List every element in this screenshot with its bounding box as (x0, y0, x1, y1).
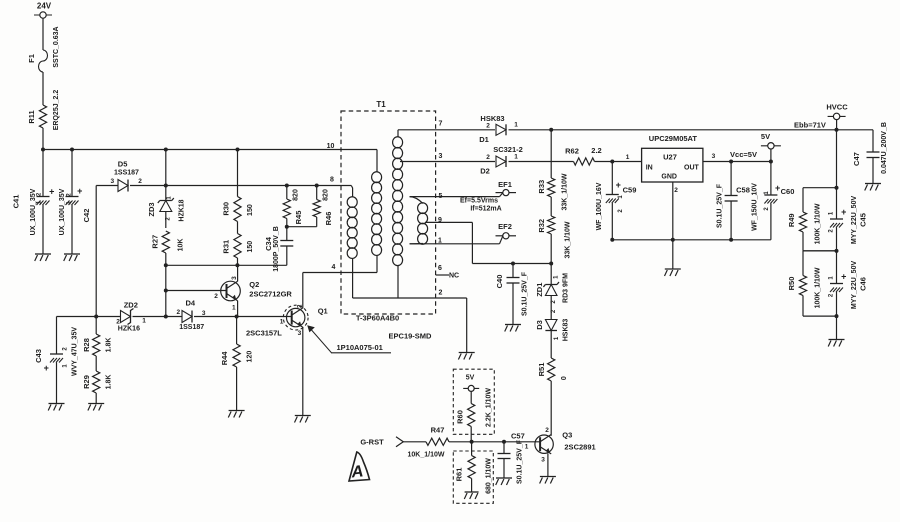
svg-text:C60: C60 (781, 187, 795, 196)
svg-text:Ebb=71V: Ebb=71V (794, 121, 826, 130)
svg-text:C42: C42 (82, 209, 91, 223)
svg-text:UX_100U_35V: UX_100U_35V (59, 188, 66, 235)
svg-text:C40: C40 (495, 275, 504, 289)
svg-text:S0.1U_25V_F: S0.1U_25V_F (717, 183, 724, 228)
svg-text:1: 1 (232, 305, 236, 312)
svg-text:D4: D4 (186, 299, 196, 308)
svg-text:2: 2 (545, 427, 549, 434)
svg-text:OUT: OUT (684, 164, 700, 171)
svg-text:HSK83: HSK83 (562, 319, 569, 342)
svg-text:ZD3: ZD3 (147, 202, 156, 216)
svg-text:5V: 5V (466, 375, 475, 382)
svg-text:1: 1 (525, 444, 529, 451)
svg-text:T1: T1 (376, 100, 386, 109)
svg-text:C34: C34 (264, 236, 273, 251)
svg-text:120: 120 (246, 351, 253, 363)
svg-text:Vcc=5V: Vcc=5V (730, 150, 757, 159)
svg-text:WF_150U_10V: WF_150U_10V (751, 183, 758, 231)
svg-text:2.2K_1/10W: 2.2K_1/10W (485, 388, 492, 427)
svg-text:NC: NC (449, 273, 459, 280)
svg-text:+: + (49, 187, 54, 197)
svg-text:1SS187: 1SS187 (114, 170, 139, 177)
svg-text:C43: C43 (34, 349, 43, 363)
svg-text:Q2: Q2 (249, 280, 259, 289)
svg-text:D1: D1 (479, 135, 489, 144)
svg-text:5: 5 (439, 193, 443, 200)
svg-text:C47: C47 (852, 152, 861, 166)
svg-text:C41: C41 (11, 195, 20, 209)
svg-text:100K_1/10W: 100K_1/10W (814, 203, 821, 244)
svg-text:MYY_22U_50V: MYY_22U_50V (851, 196, 858, 245)
svg-text:2: 2 (296, 304, 303, 308)
svg-text:2: 2 (214, 293, 218, 300)
svg-text:WF_100U_16V: WF_100U_16V (596, 182, 603, 230)
svg-text:1P10A075-01: 1P10A075-01 (337, 343, 383, 352)
svg-text:1800P_50V_B: 1800P_50V_B (273, 226, 280, 272)
svg-text:EF2: EF2 (498, 222, 512, 231)
svg-text:C57: C57 (511, 432, 525, 441)
svg-text:R30: R30 (222, 202, 231, 216)
svg-text:R33: R33 (537, 180, 546, 194)
svg-text:1.8K: 1.8K (106, 338, 113, 353)
svg-text:+: + (616, 180, 621, 190)
svg-text:D5: D5 (118, 160, 128, 169)
svg-text:33K_1/10W: 33K_1/10W (561, 173, 568, 210)
svg-text:+: + (77, 186, 82, 196)
svg-text:SC321-2: SC321-2 (493, 145, 523, 154)
svg-text:2: 2 (439, 290, 443, 297)
svg-text:ERQ25J_2.2: ERQ25J_2.2 (53, 90, 60, 131)
svg-text:R50: R50 (787, 277, 796, 291)
svg-text:D2: D2 (480, 167, 490, 176)
svg-text:+: + (841, 272, 846, 282)
svg-text:ZD2: ZD2 (124, 301, 138, 310)
svg-text:1SS187: 1SS187 (179, 324, 204, 331)
svg-text:HZK18: HZK18 (178, 199, 185, 221)
svg-text:EPC19-SMD: EPC19-SMD (389, 332, 433, 341)
svg-text:+: + (44, 363, 49, 373)
svg-text:T-3P60A4B0: T-3P60A4B0 (356, 314, 399, 323)
svg-text:680_1/10W: 680_1/10W (485, 458, 492, 494)
svg-text:8: 8 (330, 177, 334, 184)
svg-text:R27: R27 (150, 235, 159, 249)
svg-text:0.047U_200V_B: 0.047U_200V_B (881, 122, 888, 174)
svg-text:RD3 9FM: RD3 9FM (562, 273, 569, 303)
svg-text:WVY_47U_35V: WVY_47U_35V (72, 327, 79, 376)
svg-text:2.2: 2.2 (591, 146, 601, 155)
svg-text:R62: R62 (565, 146, 579, 155)
svg-text:R49: R49 (787, 213, 796, 227)
svg-text:2SC2712GR: 2SC2712GR (249, 290, 292, 299)
svg-text:10K: 10K (177, 239, 184, 252)
svg-text:3: 3 (202, 310, 206, 317)
svg-text:C59: C59 (623, 186, 637, 195)
svg-text:C58: C58 (736, 186, 750, 195)
svg-text:HSK83: HSK83 (480, 114, 504, 123)
svg-text:2: 2 (674, 187, 678, 194)
svg-text:+: + (841, 207, 846, 217)
svg-text:3: 3 (231, 276, 238, 280)
svg-text:820: 820 (322, 189, 329, 201)
svg-text:1: 1 (280, 319, 284, 326)
svg-text:6: 6 (438, 265, 442, 272)
svg-text:ZD1: ZD1 (535, 283, 544, 297)
svg-text:C45: C45 (858, 213, 867, 227)
svg-text:R29: R29 (82, 375, 91, 389)
svg-text:R31: R31 (222, 240, 231, 254)
svg-text:24V: 24V (37, 2, 52, 11)
svg-text:3: 3 (110, 178, 114, 185)
svg-text:G-RST: G-RST (360, 438, 384, 447)
svg-text:1: 1 (514, 122, 518, 129)
svg-text:GND: GND (661, 173, 677, 180)
svg-text:9: 9 (438, 217, 442, 224)
svg-text:2: 2 (176, 309, 180, 316)
svg-text:100K_1/10W: 100K_1/10W (814, 267, 821, 308)
svg-text:MYY_22U_50V: MYY_22U_50V (851, 261, 858, 310)
svg-text:2: 2 (138, 178, 142, 185)
svg-text:5V: 5V (761, 132, 770, 141)
svg-text:Q3: Q3 (562, 431, 572, 440)
svg-text:150: 150 (247, 241, 254, 253)
svg-text:UPC29M05AT: UPC29M05AT (649, 134, 698, 143)
svg-text:R47: R47 (431, 426, 445, 435)
svg-text:1: 1 (438, 238, 442, 245)
svg-text:2: 2 (116, 319, 120, 326)
svg-text:+: + (775, 183, 780, 193)
svg-text:HVCC: HVCC (826, 103, 848, 112)
svg-text:1: 1 (626, 154, 630, 161)
svg-text:HZK16: HZK16 (118, 326, 140, 333)
svg-text:1: 1 (514, 154, 518, 161)
svg-text:33K_1/10W: 33K_1/10W (564, 221, 571, 258)
svg-text:2: 2 (486, 154, 490, 161)
svg-text:R11: R11 (27, 110, 36, 123)
svg-text:R61: R61 (455, 468, 464, 482)
svg-text:Q1: Q1 (318, 307, 328, 316)
svg-text:4: 4 (332, 264, 336, 271)
svg-text:IN: IN (646, 164, 653, 171)
svg-text:If=512mA: If=512mA (470, 206, 501, 213)
svg-text:3: 3 (712, 153, 716, 160)
svg-text:EF1: EF1 (498, 180, 512, 189)
svg-text:2: 2 (486, 123, 490, 130)
svg-text:R28: R28 (82, 338, 91, 352)
svg-text:S0.1U_25V_F: S0.1U_25V_F (521, 271, 528, 316)
svg-text:3: 3 (439, 153, 443, 160)
svg-text:R51: R51 (537, 363, 546, 377)
svg-text:D3: D3 (535, 320, 544, 330)
svg-text:R32: R32 (537, 219, 546, 233)
svg-text:2SC3157L: 2SC3157L (246, 329, 282, 338)
svg-text:R60: R60 (456, 410, 465, 424)
svg-text:150: 150 (247, 204, 254, 216)
svg-text:A: A (350, 462, 365, 481)
svg-text:C46: C46 (858, 277, 867, 291)
svg-text:7: 7 (439, 121, 443, 128)
svg-text:R45: R45 (294, 211, 303, 225)
svg-text:0: 0 (561, 376, 568, 380)
svg-text:2SC2891: 2SC2891 (564, 443, 595, 452)
svg-text:3: 3 (541, 457, 545, 464)
svg-text:10: 10 (327, 143, 335, 150)
svg-text:10K_1/10W: 10K_1/10W (408, 452, 445, 459)
svg-text:SSTC_0.63A: SSTC_0.63A (53, 26, 60, 67)
svg-text:820: 820 (292, 189, 299, 201)
svg-text:3: 3 (298, 330, 302, 337)
svg-text:F1: F1 (27, 54, 36, 63)
svg-text:U27: U27 (663, 152, 677, 161)
svg-text:R44: R44 (220, 351, 229, 366)
svg-text:R46: R46 (324, 212, 333, 226)
svg-text:Ef=5.5Vrms: Ef=5.5Vrms (460, 197, 498, 204)
svg-text:S0.1U_25V_F: S0.1U_25V_F (516, 439, 523, 484)
svg-text:1: 1 (142, 318, 146, 325)
svg-text:1.8K: 1.8K (106, 375, 113, 390)
